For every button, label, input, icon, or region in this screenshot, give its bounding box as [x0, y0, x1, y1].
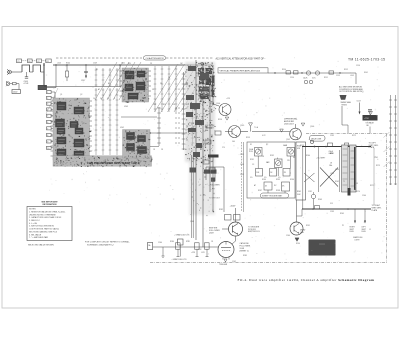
component cluster — [193, 152, 200, 157]
svg-text:R562: R562 — [335, 181, 339, 183]
svg-text:Q506: Q506 — [310, 126, 314, 128]
node dots line1 — [325, 146, 327, 148]
svg-text:R537: R537 — [258, 190, 262, 192]
switch wafer diagonal wires right — [148, 64, 211, 112]
diagonal wire near delay line — [46, 88, 58, 114]
svg-text:C2: C2 — [178, 89, 180, 91]
component cluster — [190, 103, 200, 109]
wire step from sweep — [342, 124, 348, 126]
svg-text:R590: R590 — [296, 243, 300, 245]
resistor box R537 — [264, 182, 272, 190]
svg-text:TM 11-6625-1703-15: TM 11-6625-1703-15 — [348, 58, 385, 62]
svg-text:R563: R563 — [318, 199, 322, 201]
transistor group inside U502 — [138, 136, 146, 142]
svg-text:SECTIONS GANGED, SEE FO-3: SECTIONS GANGED, SEE FO-3 — [29, 230, 57, 233]
dark blob at termination bottom — [348, 188, 351, 196]
attenuator ladder left top — [95, 68, 119, 87]
component value labels scatter — [57, 63, 380, 264]
svg-text:R582: R582 — [219, 209, 223, 211]
svg-text:- GRATICULE LTS: - GRATICULE LTS — [172, 258, 188, 261]
resistor box R551 — [195, 243, 200, 249]
svg-text:C535: C535 — [330, 135, 334, 137]
svg-text:R3: R3 — [60, 161, 62, 163]
svg-text:SELECTED VALUE SHOWN: SELECTED VALUE SHOWN — [28, 244, 54, 247]
variable resistor R532 — [275, 159, 283, 168]
vacuum tube V508 cathode follower — [218, 242, 234, 258]
svg-text:Q504: Q504 — [216, 103, 220, 105]
svg-text:INFORMATION: INFORMATION — [43, 203, 58, 206]
wire from line2 left down — [301, 209, 303, 216]
svg-text:3. SEE FO-2: 3. SEE FO-2 — [29, 220, 40, 222]
svg-text:C511: C511 — [121, 63, 125, 65]
wire output rail — [268, 72, 356, 74]
svg-text:C53: C53 — [172, 104, 175, 106]
node dot at line1 jog — [314, 146, 316, 148]
transistor group inside U501 — [70, 122, 78, 128]
label box C502 — [37, 59, 42, 63]
connector bus wire — [54, 92, 56, 150]
wire drop to note area — [355, 73, 357, 84]
svg-text:+75V: +75V — [364, 118, 369, 120]
U501 right pin ticks — [90, 101, 93, 156]
svg-text:R570: R570 — [356, 191, 360, 193]
test point triangle below Q510 — [295, 238, 299, 241]
component cluster — [188, 128, 196, 132]
stub arrow b — [364, 209, 366, 222]
resistor box R550 — [176, 243, 181, 249]
wire right bound of cross — [339, 150, 341, 192]
transistor group inside U503 — [136, 82, 145, 90]
svg-text:Q507: Q507 — [286, 139, 290, 141]
connector pin P506 — [47, 120, 52, 123]
svg-text:BAL: BAL — [205, 129, 208, 132]
svg-text:3: 3 — [47, 104, 48, 106]
svg-text:R571: R571 — [370, 185, 374, 187]
svg-text:DEFL: DEFL — [350, 231, 354, 233]
svg-text:R573: R573 — [376, 165, 380, 167]
svg-text:R561: R561 — [330, 153, 334, 155]
transistor group inside U503 — [137, 71, 145, 77]
transistor group inside U502 — [127, 144, 135, 151]
wire Q505 collector to diff amp — [241, 131, 249, 133]
resistor R505 drop — [66, 65, 68, 71]
wire delay line out — [47, 87, 56, 89]
crossed wires large X — [320, 168, 338, 187]
component cluster — [188, 66, 196, 71]
delay line block DL501 — [38, 85, 47, 89]
svg-text:C509: C509 — [93, 63, 97, 65]
svg-text:R581: R581 — [186, 241, 190, 243]
wire horizontal y117 — [121, 116, 157, 118]
graticule wire down — [179, 245, 181, 257]
svg-text:C530: C530 — [335, 169, 339, 171]
attenuator ladder right of U503 — [154, 66, 178, 112]
diode CR501 — [306, 71, 310, 75]
transistor group inside U501 — [74, 139, 84, 147]
svg-text:R538: R538 — [276, 190, 280, 192]
svg-text:2: 2 — [47, 98, 48, 100]
transistor Q506 — [290, 128, 302, 140]
wire label links — [22, 60, 28, 62]
resistor box R552 — [205, 243, 210, 249]
svg-text:8: 8 — [47, 135, 48, 137]
component cluster — [186, 95, 194, 100]
+75V storage block — [363, 115, 378, 121]
transistor group inside U501 — [74, 151, 84, 158]
svg-text:(SHEET 2): (SHEET 2) — [240, 251, 249, 253]
svg-text:+ DC SHIFT: + DC SHIFT — [316, 157, 325, 159]
svg-text:L503: L503 — [57, 63, 61, 65]
resistor ladder mid right — [157, 107, 194, 146]
connector pin P501 — [47, 91, 52, 94]
U503 pin ticks — [120, 71, 152, 96]
svg-text:R532: R532 — [270, 155, 274, 157]
wire to bus — [41, 71, 45, 73]
svg-text:U503: U503 — [124, 106, 128, 108]
resistor box R546 — [234, 215, 241, 221]
node dot top bus — [43, 64, 45, 66]
svg-text:Q1: Q1 — [60, 94, 62, 96]
wire c517 down arrow — [359, 103, 361, 114]
svg-text:NOTES:: NOTES: — [29, 209, 37, 211]
svg-text:R1: R1 — [28, 61, 30, 63]
connector pin P505 — [47, 114, 52, 117]
double bus wires strip left — [191, 155, 193, 238]
svg-text:R534: R534 — [262, 179, 266, 181]
transistor group inside U503 — [125, 84, 133, 91]
svg-text:2. CAPACITORS LESS THAN 1 IN U: 2. CAPACITORS LESS THAN 1 IN UF — [29, 216, 62, 219]
svg-text:CCW POSITION. PART NO 1A2S4,: CCW POSITION. PART NO 1A2S4, — [29, 228, 60, 231]
resistor R503 — [13, 82, 17, 84]
connector pin P510 — [47, 146, 52, 149]
transistor Q505 — [229, 126, 241, 138]
svg-text:C5: C5 — [120, 161, 122, 163]
preamp output label box — [218, 68, 268, 73]
svg-text:C560: C560 — [158, 242, 162, 244]
svg-text:C564: C564 — [286, 235, 290, 237]
bus wire Q-strip b — [202, 62, 204, 247]
resistor box R523 — [205, 140, 211, 144]
ground stub d — [206, 249, 208, 256]
wire down mid — [318, 147, 320, 193]
label box C501 — [17, 59, 22, 63]
test point triangle TP3 — [280, 129, 284, 132]
stub arrow a — [354, 209, 356, 222]
wire link between lines — [373, 148, 375, 205]
svg-text:R558: R558 — [300, 145, 304, 147]
wire drop x56 — [55, 65, 57, 88]
assembly boundary dash-dot right section — [306, 133, 387, 135]
svg-text:6. SEL VALUE: 6. SEL VALUE — [29, 233, 42, 236]
svg-text:R536: R536 — [290, 179, 294, 181]
ground stub a — [162, 247, 164, 256]
svg-text:+100V: +100V — [230, 206, 237, 208]
filter choke dark bar — [208, 155, 219, 158]
svg-text:Q2: Q2 — [80, 94, 82, 96]
wire horizontal y133 — [150, 132, 186, 134]
svg-text:R591: R591 — [306, 225, 310, 227]
svg-text:Q506 Q507: Q506 Q507 — [284, 123, 294, 125]
svg-text:R1: R1 — [96, 69, 98, 71]
wire to differential amplifier — [252, 131, 290, 133]
termination box T2 — [350, 145, 357, 192]
component cluster — [186, 112, 193, 117]
wire J502 to label — [10, 83, 13, 85]
schematic bottom boundary dash-dot — [150, 262, 387, 264]
svg-text:1. RESISTOR VALUES IN OHMS, K=: 1. RESISTOR VALUES IN OHMS, K=1000, — [29, 210, 66, 213]
wire tall box to Q510 — [296, 200, 298, 222]
hybrid IC block U503 attenuator switch — [122, 68, 149, 103]
svg-text:C517: C517 — [357, 101, 361, 103]
shaded bar CH A preamplifier label — [53, 156, 153, 167]
svg-text:FOR COMPLETE CIRCUIT REFER TO: FOR COMPLETE CIRCUIT REFER TO OVERALL — [85, 241, 131, 244]
diode pair lower — [304, 80, 308, 84]
svg-text:T1: T1 — [343, 181, 345, 183]
output line to left deflection plate — [302, 146, 371, 148]
right boundary dash-dot vertical — [386, 134, 388, 263]
capacitor C517 with arrow — [85, 65, 87, 71]
svg-text:R541: R541 — [297, 191, 301, 193]
transistor group inside U501 — [57, 102, 66, 110]
trigger arrow label — [224, 259, 227, 262]
resistor box R534 — [256, 169, 263, 177]
input connector J502 — [6, 81, 9, 86]
svg-text:L510: L510 — [330, 173, 334, 175]
attenuator label callout — [144, 56, 166, 60]
component cluster — [196, 143, 202, 148]
svg-text:CH A ATTENUATOR: CH A ATTENUATOR — [146, 57, 165, 60]
crossed wires small X — [304, 173, 315, 182]
wire Q506 up — [295, 124, 297, 128]
node dot rail — [55, 64, 56, 65]
svg-text:R585: R585 — [243, 255, 247, 257]
ground stub c — [196, 249, 198, 256]
transistor group inside U501 — [57, 137, 66, 144]
transistor group inside U501 — [57, 149, 66, 156]
svg-text:7: 7 — [47, 128, 48, 130]
transistor group inside U501 — [75, 128, 83, 134]
right edge bus 2 — [395, 95, 397, 185]
test point triangle TP1 — [225, 117, 229, 120]
resistor box R545 — [225, 215, 232, 221]
wire X to line2 — [313, 192, 315, 194]
test point triangle TP2 — [249, 123, 253, 126]
resistor box R538 — [282, 182, 290, 191]
bus wire Q-strip c — [209, 66, 211, 192]
switch wafer diagonal wires left — [95, 62, 141, 100]
svg-text:C533: C533 — [330, 211, 334, 213]
svg-text:R580: R580 — [170, 241, 174, 243]
transistor group inside U502 — [127, 133, 135, 140]
svg-text:C515: C515 — [336, 75, 340, 77]
gain switch assembly outline — [247, 142, 295, 198]
bus wire Q-strip a — [195, 60, 197, 240]
wire Q505 base — [225, 131, 232, 133]
transistor Q504 — [219, 104, 231, 116]
svg-text:CAL: CAL — [329, 164, 332, 167]
capacitor C508 — [26, 72, 28, 77]
bias network open box — [206, 166, 224, 168]
page scan mottle — [46, 57, 385, 263]
svg-text:R504: R504 — [66, 63, 70, 65]
resistor box R525 — [203, 160, 209, 164]
supply wire — [235, 208, 237, 222]
svg-text:C514: C514 — [290, 77, 294, 79]
identification dark plate — [309, 240, 336, 256]
svg-text:R2: R2 — [47, 61, 49, 63]
inductor L502 — [33, 65, 41, 72]
svg-text:C516: C516 — [356, 65, 360, 67]
transistor group inside U501 — [74, 107, 84, 114]
wire sweep block down — [341, 106, 343, 125]
pin label box left — [148, 243, 153, 250]
connector pin P503 — [47, 102, 52, 105]
svg-text:Q509: Q509 — [209, 233, 214, 235]
svg-text:915: 915 — [330, 203, 333, 205]
svg-text:U502: U502 — [120, 127, 124, 129]
transistor group inside U503 — [125, 71, 134, 79]
svg-text:C1: C1 — [17, 61, 19, 63]
graticule resistor box — [178, 239, 184, 245]
svg-text:TRIGGER: TRIGGER — [219, 264, 228, 266]
resistor box R535 — [270, 169, 277, 177]
svg-text:OUT POSITION. SEE NOTE 5: OUT POSITION. SEE NOTE 5 — [339, 91, 363, 93]
svg-text:R565: R565 — [340, 213, 344, 215]
transistor group inside U502 — [138, 147, 147, 154]
svg-text:R560: R560 — [306, 155, 310, 157]
svg-text:5: 5 — [47, 116, 48, 118]
svg-text:R572: R572 — [352, 135, 356, 137]
svg-text:R7: R7 — [140, 161, 142, 163]
svg-text:Q505: Q505 — [240, 125, 244, 127]
diode CR502 — [315, 71, 319, 75]
connector pin P509 — [47, 140, 52, 143]
variable resistor R533 — [287, 148, 295, 157]
wire Q509 to V508 — [235, 236, 237, 241]
series resistor box 2 on line1 — [345, 143, 349, 146]
wire drop x120 — [119, 65, 121, 87]
svg-text:R531: R531 — [250, 159, 254, 161]
component box on rail — [329, 71, 334, 74]
svg-text:A1: A1 — [92, 155, 94, 158]
component cluster — [200, 73, 209, 79]
label box J502 — [12, 90, 20, 94]
output line to right deflection plate — [302, 208, 371, 210]
series resistor on line2 — [315, 206, 320, 209]
svg-text:SCHEMATIC DIAGRAM FO-2: SCHEMATIC DIAGRAM FO-2 — [87, 243, 115, 246]
sweep mag dark block — [340, 95, 347, 100]
svg-text:J1: J1 — [369, 229, 371, 231]
transistor group inside U501 — [57, 128, 65, 134]
dashed riser wires left of assembly — [241, 142, 243, 212]
wire between inductors — [30, 71, 34, 73]
wires inside assembly — [257, 156, 259, 169]
svg-text:4. L = UH: 4. L = UH — [29, 223, 38, 225]
connector pin P507 — [47, 127, 52, 130]
svg-text:UNLESS NOTED OTHERWISE: UNLESS NOTED OTHERWISE — [29, 214, 56, 216]
label box R502 — [46, 59, 51, 63]
assembly boundary dash line — [56, 57, 142, 59]
central amplifier section haze — [185, 62, 216, 216]
variable resistor R531 — [255, 148, 263, 157]
connector pin P508 — [47, 133, 52, 136]
svg-text:AT: AT — [98, 88, 100, 91]
svg-text:TO CRT CKT: TO CRT CKT — [209, 198, 221, 200]
wire storage down — [369, 127, 371, 134]
svg-text:R511: R511 — [324, 77, 328, 79]
right edge ticks — [389, 100, 397, 184]
svg-text:50: 50 — [107, 98, 109, 100]
svg-text:R52: R52 — [163, 104, 166, 106]
svg-text:560: 560 — [232, 141, 235, 143]
svg-text:SW: SW — [128, 63, 131, 65]
termination box T1 — [342, 145, 349, 192]
svg-text:C2: C2 — [37, 61, 39, 63]
general notes box — [27, 207, 72, 241]
wire rail to Q504 — [212, 65, 214, 104]
resistor box R560 — [286, 71, 291, 74]
resistor box R526 — [209, 168, 215, 172]
right edge bus 1 — [390, 95, 392, 185]
hatch marks on boundary — [384, 132, 390, 138]
svg-text:2W: 2W — [287, 160, 290, 162]
svg-text:LIGHT: LIGHT — [355, 239, 360, 241]
svg-text:P1: P1 — [342, 225, 344, 227]
svg-text:7. * = MATCHED PAIR: 7. * = MATCHED PAIR — [29, 236, 49, 239]
svg-text:10: 10 — [47, 148, 49, 150]
transistor Q509 emitter follower — [229, 222, 243, 236]
resistor box R524 — [215, 131, 221, 135]
svg-text:C522: C522 — [240, 174, 244, 176]
resistor box R536 — [283, 169, 290, 177]
input connector J501 — [7, 69, 12, 75]
node dots on rail — [274, 72, 275, 73]
svg-text:R53: R53 — [186, 104, 189, 106]
hybrid IC block U501 CH A preamplifier — [53, 98, 91, 161]
tall bias network box — [296, 142, 306, 200]
transistor Q510 — [290, 222, 303, 235]
svg-text:C540: C540 — [362, 195, 366, 197]
test point triangle TP4 — [301, 123, 305, 126]
svg-text:C3: C3 — [252, 164, 254, 166]
series resistor box on line1 — [328, 143, 333, 146]
svg-text:EMITTER FOL: EMITTER FOL — [248, 231, 260, 233]
capacitor C519 — [368, 109, 372, 111]
component cluster — [195, 120, 204, 125]
svg-text:CH A PREAMPLIFIER AMPL SHEET 1: CH A PREAMPLIFIER AMPL SHEET 1 OF 2 — [87, 161, 140, 165]
resistor box R561 — [294, 71, 299, 74]
horizontal rail y86 — [44, 86, 121, 88]
hybrid IC block U502 — [123, 130, 152, 160]
svg-text:6: 6 — [47, 122, 48, 124]
svg-text:R516: R516 — [218, 119, 222, 121]
dark bar inside termination — [354, 147, 356, 190]
wire down left to line2 — [302, 147, 304, 210]
ground stub b — [177, 249, 179, 256]
svg-text:L505: L505 — [350, 75, 354, 77]
assembly boundary dash line right — [166, 57, 214, 59]
svg-text:1: 1 — [47, 92, 48, 94]
svg-text:BL: BL — [108, 83, 110, 85]
label box R501 — [28, 59, 33, 63]
svg-text:PLATE: PLATE — [372, 209, 378, 212]
svg-text:R535: R535 — [276, 179, 280, 181]
svg-text:C562: C562 — [232, 261, 236, 263]
vertical input bus — [43, 63, 45, 87]
transistor group inside U501 — [56, 119, 65, 127]
svg-text:A13 VERTICAL ATTENUATOR ASSY P: A13 VERTICAL ATTENUATOR ASSY PART OF — [216, 58, 265, 61]
svg-text:R512: R512 — [344, 69, 348, 71]
